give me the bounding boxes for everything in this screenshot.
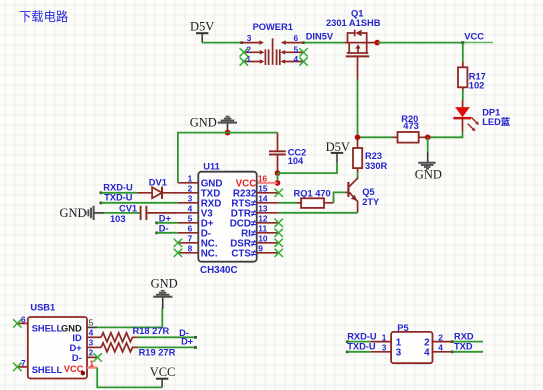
svg-text:SHELL: SHELL <box>32 365 63 375</box>
wire Q1 gate down to junction <box>357 79 359 137</box>
node tick POWER1 pin6 <box>302 41 305 44</box>
svg-text:13: 13 <box>258 204 268 214</box>
svg-text:DIN5V: DIN5V <box>306 32 334 42</box>
wire R17 to DP1 <box>462 90 464 100</box>
svg-text:D-: D- <box>72 353 82 363</box>
wire P5 pin2 to RXD <box>452 341 483 343</box>
U11 pin 5 D+ <box>178 214 214 230</box>
wire DP1 down to rail <box>428 132 463 137</box>
USB1 pin 3 D+ <box>70 338 102 354</box>
wire D+ to pin 5 <box>157 222 178 224</box>
svg-text:P5: P5 <box>397 323 408 333</box>
channel stubs <box>349 43 367 53</box>
svg-text:GND: GND <box>415 168 442 182</box>
right contact bars <box>277 49 280 65</box>
ground GND (right) <box>415 152 442 182</box>
light arrow 2 <box>468 124 473 129</box>
U11 pin 10 DSR <box>230 234 283 250</box>
svg-text:5: 5 <box>89 318 94 328</box>
wire D- to pin 6 <box>157 232 178 234</box>
svg-text:16: 16 <box>258 174 268 184</box>
wire RQ1 to Q5 base <box>334 192 346 202</box>
capacitor CC2 <box>269 133 306 174</box>
resistor R17 <box>458 62 486 91</box>
wire VCC stub right <box>465 42 493 44</box>
P5 pin 1 <box>371 332 402 348</box>
wire Q1 drain to VCC corner <box>377 42 463 44</box>
svg-text:15: 15 <box>258 184 268 194</box>
wire TXD-U to pin 3 <box>101 202 178 204</box>
svg-text:103: 103 <box>110 214 126 224</box>
pin 1 <box>244 61 260 63</box>
svg-text:1: 1 <box>382 332 387 342</box>
pin 2 <box>244 51 260 53</box>
pin 5 <box>285 51 304 53</box>
node tick D- end <box>194 336 197 339</box>
svg-text:DV1: DV1 <box>149 177 167 187</box>
wire R19 to D+ <box>138 346 196 348</box>
svg-text:GND: GND <box>60 206 87 220</box>
USB1 pin 5 GND <box>61 318 97 334</box>
connector USB1 body <box>28 302 87 378</box>
svg-text:U11: U11 <box>203 162 220 172</box>
svg-text:3: 3 <box>188 194 193 204</box>
U11 pin 2 TXD <box>178 184 220 200</box>
svg-text:VCC: VCC <box>64 364 84 374</box>
USB1 pin 7 SHELL <box>13 358 62 375</box>
transistor Q5 (NPN 2TY) <box>345 177 380 212</box>
wire D5V to POWER1 pin 3 <box>202 42 241 44</box>
svg-text:LED蓝: LED蓝 <box>482 116 511 127</box>
svg-text:CH340C: CH340C <box>200 265 238 276</box>
node tick VCC corner <box>461 41 464 44</box>
svg-text:D5V: D5V <box>190 20 214 34</box>
svg-text:CTS≠: CTS≠ <box>231 249 257 260</box>
junction at Q1 drain <box>374 40 380 46</box>
svg-text:DP1: DP1 <box>482 108 500 118</box>
P5 pin 2 <box>424 332 452 348</box>
no-ERC X pin 1 <box>240 57 248 65</box>
wire pin1 to VCC <box>97 368 162 388</box>
svg-text:4: 4 <box>89 328 94 338</box>
svg-text:4: 4 <box>424 348 430 359</box>
svg-text:RXD: RXD <box>454 332 474 342</box>
svg-text:USB1: USB1 <box>30 302 55 312</box>
power port VCC (bottom) <box>150 365 176 387</box>
svg-text:CV1: CV1 <box>119 204 137 214</box>
wire U11 pin14 to RQ1 <box>279 202 297 204</box>
wire R18 to D- <box>138 336 196 338</box>
op-amp U11 CH340C body <box>198 162 256 277</box>
svg-text:D+: D+ <box>70 343 83 353</box>
svg-text:R18 27R: R18 27R <box>133 326 170 336</box>
wire RXD-U to DV1 <box>101 192 138 194</box>
svg-text:3: 3 <box>89 338 94 348</box>
node tick D+ end <box>194 346 197 349</box>
svg-text:10: 10 <box>258 234 268 244</box>
junction below GND <box>225 130 231 136</box>
svg-text:1: 1 <box>89 358 94 368</box>
node tick TXD-U P5 <box>346 351 349 354</box>
svg-text:104: 104 <box>288 156 304 166</box>
svg-text:4: 4 <box>293 54 298 64</box>
capacitor CV1 <box>110 204 178 224</box>
U11 pin 12 DCD <box>230 214 283 230</box>
U11 pin 1 GND <box>178 174 223 190</box>
pin 16 (highlighted) <box>257 182 278 184</box>
wire R20 left to gate junction <box>358 136 393 138</box>
U11 pin 8 NC <box>174 244 218 260</box>
P5 pin 4 <box>424 343 452 359</box>
transistor Q1 (P-MOSFET 2301 A1SHB) <box>326 9 381 80</box>
svg-text:R19 27R: R19 27R <box>139 348 176 358</box>
U11 pin 6 D- <box>178 224 211 240</box>
svg-text:ID: ID <box>72 333 82 343</box>
wire U11 pin13 to Q5 emitter <box>279 212 358 214</box>
svg-text:POWER1: POWER1 <box>253 22 293 32</box>
svg-text:1: 1 <box>188 174 193 184</box>
svg-text:473: 473 <box>403 121 419 131</box>
svg-text:4: 4 <box>438 343 443 353</box>
node tick at POWER1 pin3 <box>240 41 243 44</box>
U11 pin 7 NC <box>174 234 218 250</box>
U11 pin 14 RTS <box>231 194 278 210</box>
no-ERC X pin 5 <box>299 48 307 56</box>
pin 4 <box>285 61 304 63</box>
wire junction down to GND <box>427 137 429 152</box>
svg-text:6: 6 <box>21 314 26 324</box>
svg-text:TXD-U: TXD-U <box>347 342 376 352</box>
no-ERC X pin 4 <box>299 57 307 65</box>
left contact bars <box>265 49 268 65</box>
diode DV1 <box>137 177 178 199</box>
svg-text:GND: GND <box>151 276 178 290</box>
svg-text:2: 2 <box>438 332 443 342</box>
svg-text:2: 2 <box>89 348 94 358</box>
svg-text:NC.: NC. <box>201 249 218 260</box>
U11 pin 15 R232 <box>233 184 283 200</box>
wire GND rail <box>178 133 278 183</box>
svg-text:R23: R23 <box>365 151 382 161</box>
node tick pin4 <box>451 351 454 354</box>
node tick TXD-U <box>100 202 103 205</box>
junction CC2/D5V <box>275 170 281 176</box>
body diode <box>354 30 356 36</box>
svg-text:6: 6 <box>188 224 193 234</box>
svg-text:102: 102 <box>469 81 485 91</box>
ground GND (left, rotated) <box>60 206 105 220</box>
power port D5V (middle) <box>326 140 350 163</box>
P5 pin 3 <box>371 343 402 359</box>
svg-text:3: 3 <box>247 33 252 43</box>
USB1 pin 2 D- <box>72 348 102 364</box>
svg-text:2: 2 <box>188 184 193 194</box>
wire D5V to junction <box>278 163 338 174</box>
svg-text:12: 12 <box>258 214 268 224</box>
resistor R19 <box>101 343 175 358</box>
ground GND (bottom) <box>151 276 178 309</box>
U11 pin 3 RXD <box>178 194 221 210</box>
svg-text:3: 3 <box>396 348 402 359</box>
svg-text:330R: 330R <box>365 161 388 171</box>
U11 pin 11 RI <box>241 224 283 240</box>
power port D5V (top left) <box>190 20 214 43</box>
svg-text:TXD: TXD <box>454 342 473 352</box>
svg-text:VCC: VCC <box>150 365 176 379</box>
wire RXD-U to P5 pin1 <box>347 341 371 343</box>
svg-text:2301 A1SHB: 2301 A1SHB <box>326 18 381 28</box>
svg-text:下载电路: 下载电路 <box>19 9 68 24</box>
svg-text:VCC: VCC <box>464 31 484 41</box>
connector P5 body <box>391 323 432 363</box>
wire GND to CV1 <box>104 212 140 214</box>
svg-text:RXD-U: RXD-U <box>347 332 377 342</box>
svg-text:14: 14 <box>258 194 268 204</box>
svg-text:D5V: D5V <box>326 140 350 154</box>
substrate arrow <box>357 47 359 53</box>
svg-text:GND: GND <box>61 323 82 333</box>
pin 3 <box>242 42 260 44</box>
svg-text:5: 5 <box>293 44 298 54</box>
switch lever <box>272 38 274 65</box>
svg-text:RQ1 470: RQ1 470 <box>294 189 331 199</box>
USB1 pin 1 VCC (highlighted) <box>64 358 97 375</box>
svg-text:D+: D+ <box>181 337 194 347</box>
node tick D+ <box>155 222 158 225</box>
svg-text:6: 6 <box>293 33 298 43</box>
U11 pin 13 DTR <box>231 204 279 220</box>
light arrow 1 <box>471 117 476 122</box>
junction right of R20 <box>425 135 431 141</box>
svg-text:8: 8 <box>188 244 193 254</box>
gate lead <box>357 56 359 80</box>
U11 pin 4 V3 <box>178 204 213 220</box>
svg-text:RXD-U: RXD-U <box>103 182 133 192</box>
gate bar <box>346 55 369 57</box>
wire pin5 to GND <box>97 309 162 328</box>
wire VCC corner down to R17 <box>462 43 464 63</box>
USB1 pin 4 ID <box>72 328 101 344</box>
resistor R20 <box>393 114 428 143</box>
pin 6 <box>286 42 304 44</box>
svg-text:GND: GND <box>190 115 217 129</box>
resistor RQ1 <box>294 189 334 208</box>
node tick pin2 <box>451 340 454 343</box>
svg-text:TXD-U: TXD-U <box>104 193 133 203</box>
svg-text:9: 9 <box>258 244 263 254</box>
resistor R23 <box>353 137 388 173</box>
svg-text:2TY: 2TY <box>362 197 380 207</box>
svg-text:Q5: Q5 <box>362 187 374 197</box>
svg-text:5: 5 <box>188 214 193 224</box>
junction at R23 top <box>355 135 361 141</box>
svg-text:11: 11 <box>258 224 267 234</box>
switch POWER1 <box>240 22 308 65</box>
USB1 pin 6 SHELL <box>13 314 62 333</box>
wire TXD-U to P5 pin3 <box>347 351 371 353</box>
resistor R18 <box>101 326 169 342</box>
wire R23 to Q5 collector <box>357 173 359 178</box>
ground GND (middle) <box>190 115 237 131</box>
wire junction to pin16 <box>277 173 279 183</box>
svg-text:4: 4 <box>188 204 193 214</box>
svg-text:7: 7 <box>188 234 193 244</box>
LED DP1 <box>453 100 510 132</box>
node tick D- <box>155 232 158 235</box>
no-ERC X pin 2 <box>240 48 248 56</box>
node tick RXD-U P5 <box>346 340 349 343</box>
junction at pin16 <box>275 180 281 186</box>
wire P5 pin4 to TXD <box>452 351 483 353</box>
channel bar <box>347 52 369 54</box>
svg-text:SHELL: SHELL <box>32 323 63 333</box>
node tick RXD-U <box>100 191 103 194</box>
wire DIN5V <box>304 42 345 44</box>
U11 pin 9 CTS <box>231 244 283 260</box>
svg-text:3: 3 <box>382 343 387 353</box>
